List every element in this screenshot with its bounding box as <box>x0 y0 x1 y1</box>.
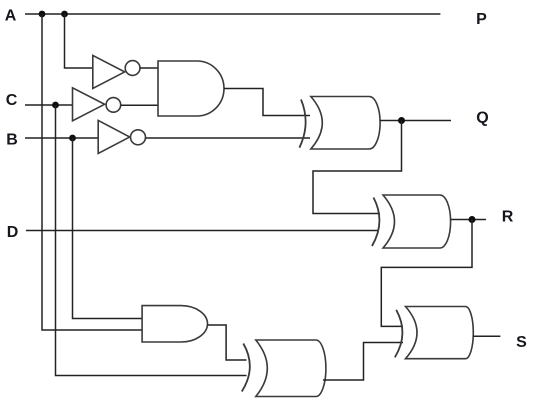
wire B drop to AND2 upper input <box>73 138 143 319</box>
wire C drop to XOR3 lower input <box>56 105 247 376</box>
svg-text:C: C <box>6 92 18 109</box>
XOR gate XOR1 input crescent <box>299 100 305 148</box>
wire AND1 output to XOR1 upper input <box>224 89 310 116</box>
XOR gate XOR3 body <box>256 340 326 397</box>
AND gate AND1 <box>158 61 224 116</box>
inverter NOT2 triangle <box>73 88 105 121</box>
wire A to P <box>25 13 440 15</box>
svg-text:A: A <box>5 8 17 25</box>
svg-text:D: D <box>7 224 19 241</box>
wire R feedback to XOR4 upper input <box>381 220 472 327</box>
wire NOT2 output to AND1 lower input <box>121 104 158 106</box>
inverter NOT3 triangle <box>98 120 130 153</box>
AND gate AND2 <box>142 306 207 342</box>
svg-text:Q: Q <box>476 110 488 127</box>
junction dot on A line (node A2) <box>61 11 68 18</box>
XOR gate XOR2 body <box>383 195 451 248</box>
wire NOT1 output to AND1 upper input <box>140 67 158 69</box>
junction dot node R <box>469 216 476 223</box>
inverter NOT1 triangle <box>93 55 125 88</box>
XOR gate XOR3 input crescent <box>242 344 250 392</box>
junction dot on C line <box>52 102 59 109</box>
wire Q feedback to XOR2 upper input <box>313 121 402 214</box>
junction dot on B line <box>69 135 76 142</box>
wire B to NOT3 <box>25 137 98 139</box>
XOR gate XOR1 body <box>311 97 380 150</box>
inverter NOT1 bubble <box>125 61 140 76</box>
svg-text:B: B <box>6 132 18 149</box>
inverter NOT2 bubble <box>106 98 121 113</box>
wire C to NOT2 <box>25 104 73 106</box>
wire XOR1 output to Q <box>380 120 451 122</box>
wire XOR3 output to XOR4 lower input <box>323 343 403 381</box>
junction dot node Q <box>398 117 405 124</box>
junction dot on A line (node A1) <box>39 11 46 18</box>
wire A drop to AND2 lower input <box>42 14 142 330</box>
wire AND2 output to XOR3 upper input <box>208 325 247 360</box>
wire XOR2 output to R <box>451 219 486 221</box>
wire XOR4 output to S <box>473 335 500 337</box>
XOR gate XOR4 input crescent <box>395 310 403 358</box>
inverter NOT3 bubble <box>131 130 146 145</box>
wire D to XOR2 lower input <box>26 230 379 232</box>
XOR gate XOR4 body <box>406 307 474 359</box>
wire A drop to NOT1 input <box>65 14 93 68</box>
svg-text:R: R <box>502 209 514 226</box>
svg-text:P: P <box>476 11 487 28</box>
svg-text:S: S <box>516 334 527 351</box>
XOR gate XOR2 input crescent <box>372 198 379 247</box>
wire NOT3 output to XOR1 lower input <box>146 137 311 139</box>
